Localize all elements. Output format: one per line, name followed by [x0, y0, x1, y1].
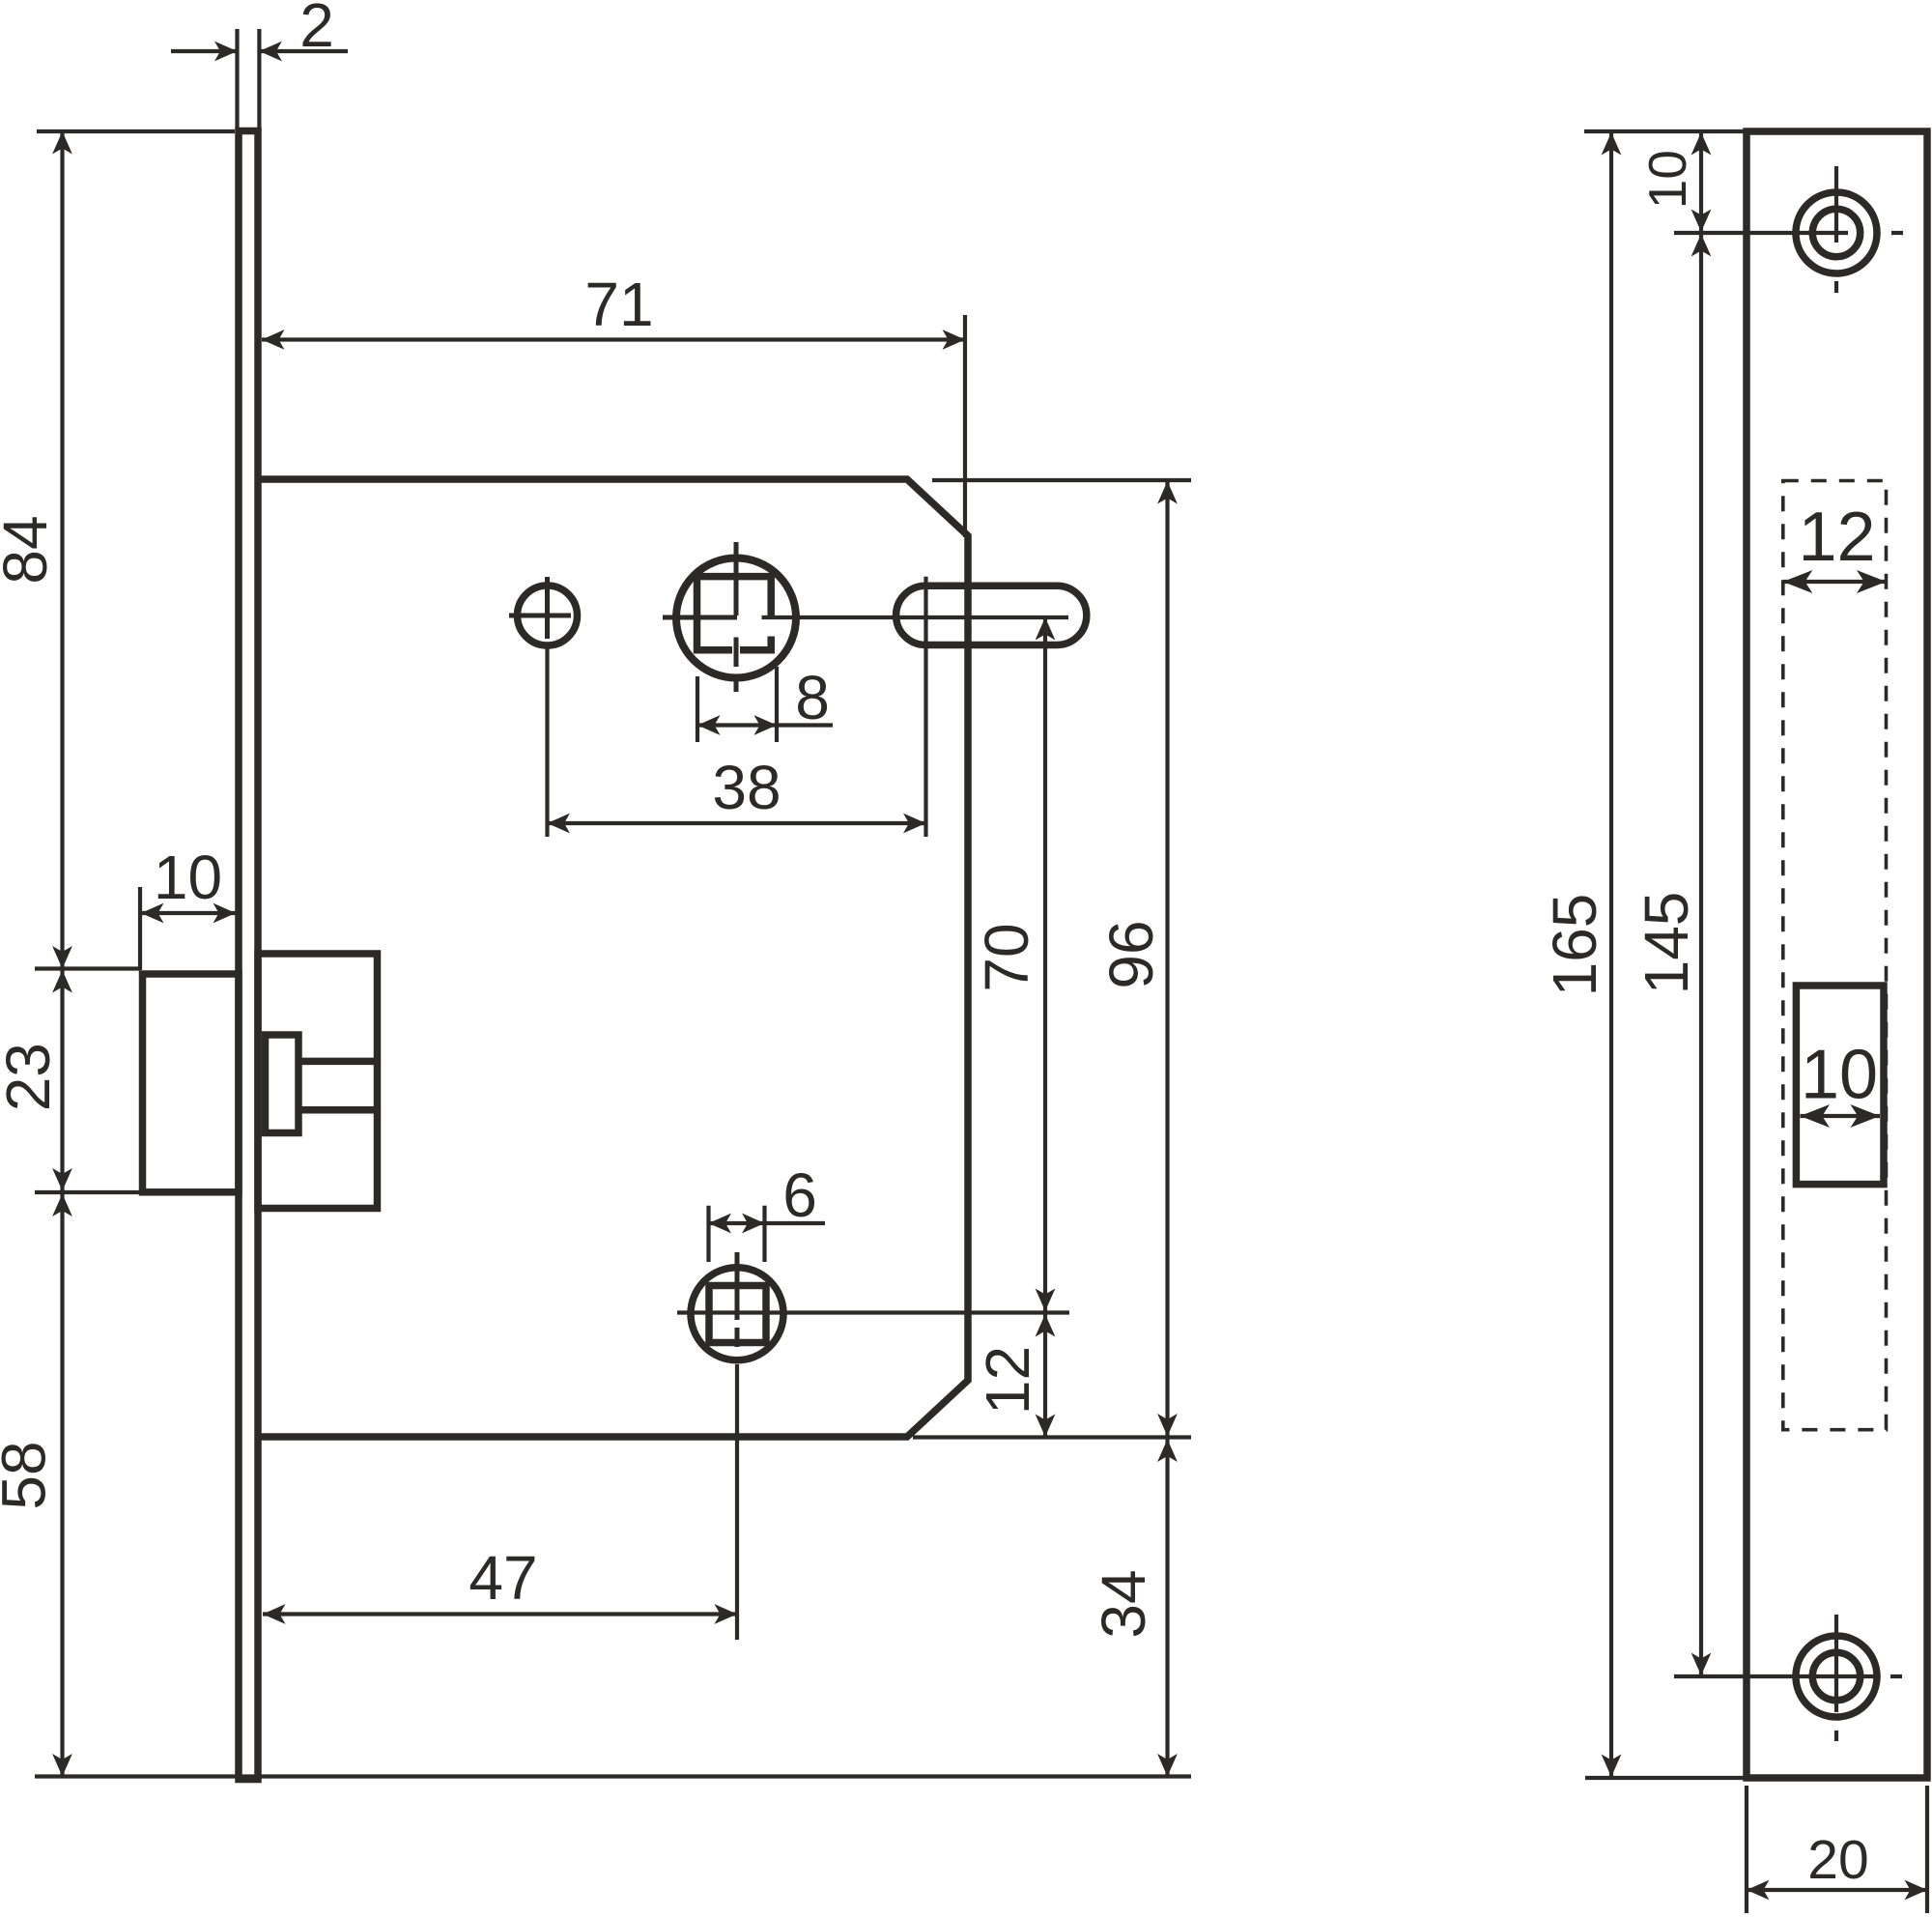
- dimension 58: [35, 1774, 1191, 1778]
- svg-text:12: 12: [973, 1346, 1042, 1415]
- lock body outline with chamfered right corners: [258, 479, 968, 1437]
- svg-text:12: 12: [1798, 499, 1875, 576]
- svg-text:8: 8: [795, 663, 830, 732]
- dimension 10 (latch opening width): [1801, 1114, 1881, 1118]
- faceplate front outline: [1747, 131, 1927, 1778]
- dimension 47: [263, 1612, 737, 1616]
- lower square hole (6mm): [709, 1286, 766, 1343]
- latch tail bar: [298, 1061, 378, 1109]
- spindle hole centerlines: [663, 542, 737, 692]
- svg-text:10: 10: [1637, 150, 1697, 209]
- svg-text:58: 58: [0, 1441, 59, 1509]
- dashed cutout (12mm slot): [1783, 481, 1887, 1430]
- dimension 70: [1043, 617, 1047, 1437]
- latch housing (inside body): [258, 954, 378, 1209]
- dimension 34: [1157, 1440, 1178, 1463]
- latch bolt (protruding through faceplate): [143, 974, 240, 1192]
- dimension 12 (dashed slot width): [1783, 580, 1887, 584]
- svg-text:34: 34: [1089, 1569, 1158, 1638]
- dimension 2 (faceplate thickness): [171, 29, 348, 128]
- fixing screw hole centerlines: [509, 577, 571, 639]
- bottom screw hole centerlines: [1674, 1615, 1902, 1741]
- svg-text:10: 10: [1801, 1037, 1878, 1114]
- dimension 71 (body depth): [262, 315, 965, 537]
- dimension 23 (latch height): [35, 1190, 140, 1194]
- dimension 96 (body height): [913, 480, 1191, 1777]
- row centerline through oval slot: [762, 615, 1069, 619]
- dimension 84: [35, 131, 235, 1777]
- top screw hole centerlines: [1674, 166, 1903, 293]
- svg-text:47: 47: [469, 1543, 537, 1613]
- lower follower hole (circle): [691, 1268, 783, 1360]
- svg-text:70: 70: [972, 923, 1041, 991]
- spindle square hole (8mm): [697, 577, 772, 650]
- svg-text:10: 10: [154, 843, 222, 912]
- svg-text:145: 145: [1632, 892, 1701, 995]
- dimension 20 (plate width): [1747, 1786, 1927, 1913]
- svg-text:38: 38: [712, 753, 781, 822]
- svg-text:96: 96: [1096, 920, 1166, 988]
- svg-text:23: 23: [0, 1043, 63, 1111]
- spindle hole (big circle): [676, 558, 796, 678]
- dimension 6 (lower square hole): [709, 1206, 826, 1262]
- dimension 10 (latch protrusion): [140, 887, 236, 970]
- top screw hole: [1796, 192, 1877, 273]
- dimension 38: [548, 646, 926, 837]
- dimension 8 (square hole): [697, 667, 833, 742]
- dimension 12 (left view): [1036, 1314, 1056, 1337]
- faceplate (side view, thin vertical plate): [239, 131, 258, 1780]
- lower hole centerlines: [735, 1252, 740, 1347]
- svg-text:165: 165: [1540, 894, 1609, 997]
- svg-text:6: 6: [782, 1160, 817, 1230]
- svg-text:2: 2: [299, 0, 334, 60]
- oval slot (cylinder opening): [896, 586, 1087, 644]
- bottom screw hole: [1796, 1636, 1877, 1717]
- svg-text:84: 84: [0, 515, 60, 584]
- dimension 165: [1584, 131, 1745, 1778]
- svg-text:20: 20: [1807, 1829, 1868, 1891]
- dimension 145 (screw centers): [1691, 234, 1712, 257]
- latch guide block (inner rectangle): [266, 1035, 299, 1133]
- oval slot left arc center line: [923, 577, 927, 837]
- fixing screw hole (small circle): [518, 586, 578, 645]
- svg-text:71: 71: [584, 270, 653, 339]
- latch opening (solid rectangle): [1796, 986, 1884, 1185]
- dimension 10 (top, plate end to screw): [1699, 132, 1703, 1675]
